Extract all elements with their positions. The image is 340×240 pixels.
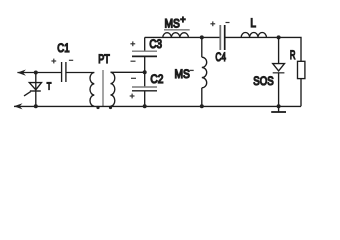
wire SOS branch lower (278, 73, 280, 107)
resistor R (298, 61, 305, 78)
C2 minus sign (131, 77, 136, 79)
svg-text:SOS: SOS (253, 74, 273, 88)
svg-text:L: L (250, 16, 256, 30)
svg-text:C1: C1 (57, 41, 69, 55)
transformer PT secondary winding (111, 72, 115, 106)
capacitor C3 (132, 51, 157, 56)
svg-text:MS: MS (175, 67, 190, 81)
svg-text:T: T (47, 80, 52, 92)
inductor L (241, 32, 266, 37)
svg-text:R: R (290, 48, 296, 62)
wire SOS branch upper (278, 37, 280, 63)
C4 minus sign (226, 22, 230, 24)
inductor MS+ (163, 33, 189, 38)
ground (271, 106, 286, 112)
wire top-left (upper input lead) (17, 72, 61, 74)
C4 plus sign (210, 21, 215, 26)
node B junction dot (C3/C2 midpoint) (143, 70, 147, 74)
node G junction dot (MS- bottom) (200, 104, 204, 108)
capacitor C4 (220, 25, 224, 50)
node D junction dot (SOS top) (277, 35, 281, 39)
arrow upper input (17, 70, 26, 76)
wire C-branch lower (C2 to bottom rail) (144, 91, 146, 106)
wire C-branch upper (top rail to C3) (144, 37, 146, 50)
secondary polarity dot (109, 106, 112, 109)
svg-text:+: + (180, 15, 186, 26)
wire MS- branch lower (201, 88, 203, 107)
wire secondary top to C-branch (111, 71, 145, 73)
C3 minus sign (131, 60, 136, 62)
capacitor C2 (132, 87, 157, 91)
C1 plus sign (51, 59, 56, 64)
node C junction dot (MS- top) (200, 35, 204, 39)
wire R to bottom rail (300, 79, 302, 107)
thyristor T (24, 83, 42, 96)
top rail segment 1 (145, 36, 220, 38)
node F junction dot (C2 bottom) (143, 104, 147, 108)
wire C-branch middle (C3 to C2) (144, 57, 146, 86)
transformer core (102, 70, 104, 106)
label MS- (175, 67, 194, 81)
C3 plus sign (130, 41, 135, 46)
label MS+ (165, 15, 186, 31)
wire MS- branch upper (201, 37, 203, 57)
svg-text:C2: C2 (150, 72, 163, 86)
C1 minus sign (69, 59, 73, 61)
svg-text:C4: C4 (215, 50, 226, 64)
node A junction dot (thyristor top) (34, 71, 38, 75)
node E junction dot (thyristor bottom) (34, 104, 38, 108)
arrow lower input (14, 103, 23, 109)
capacitor C1 (62, 62, 66, 82)
inductor MS+ core bar (164, 29, 190, 31)
C2 plus sign (130, 94, 135, 99)
wire between C1 and transformer primary (66, 72, 94, 74)
inductor MS- (202, 57, 207, 88)
svg-text:PT: PT (98, 52, 110, 66)
svg-text:MS: MS (165, 16, 180, 30)
transformer PT primary winding (90, 73, 94, 107)
svg-text:C3: C3 (149, 37, 162, 51)
wire thyristor branch (35, 73, 37, 107)
primary polarity dot (96, 106, 99, 109)
diode SOS (273, 64, 285, 73)
bottom rail (14, 105, 301, 107)
top rail segment 4 with corner to R (226, 37, 302, 61)
node H junction dot (SOS bottom / ground) (277, 104, 281, 108)
